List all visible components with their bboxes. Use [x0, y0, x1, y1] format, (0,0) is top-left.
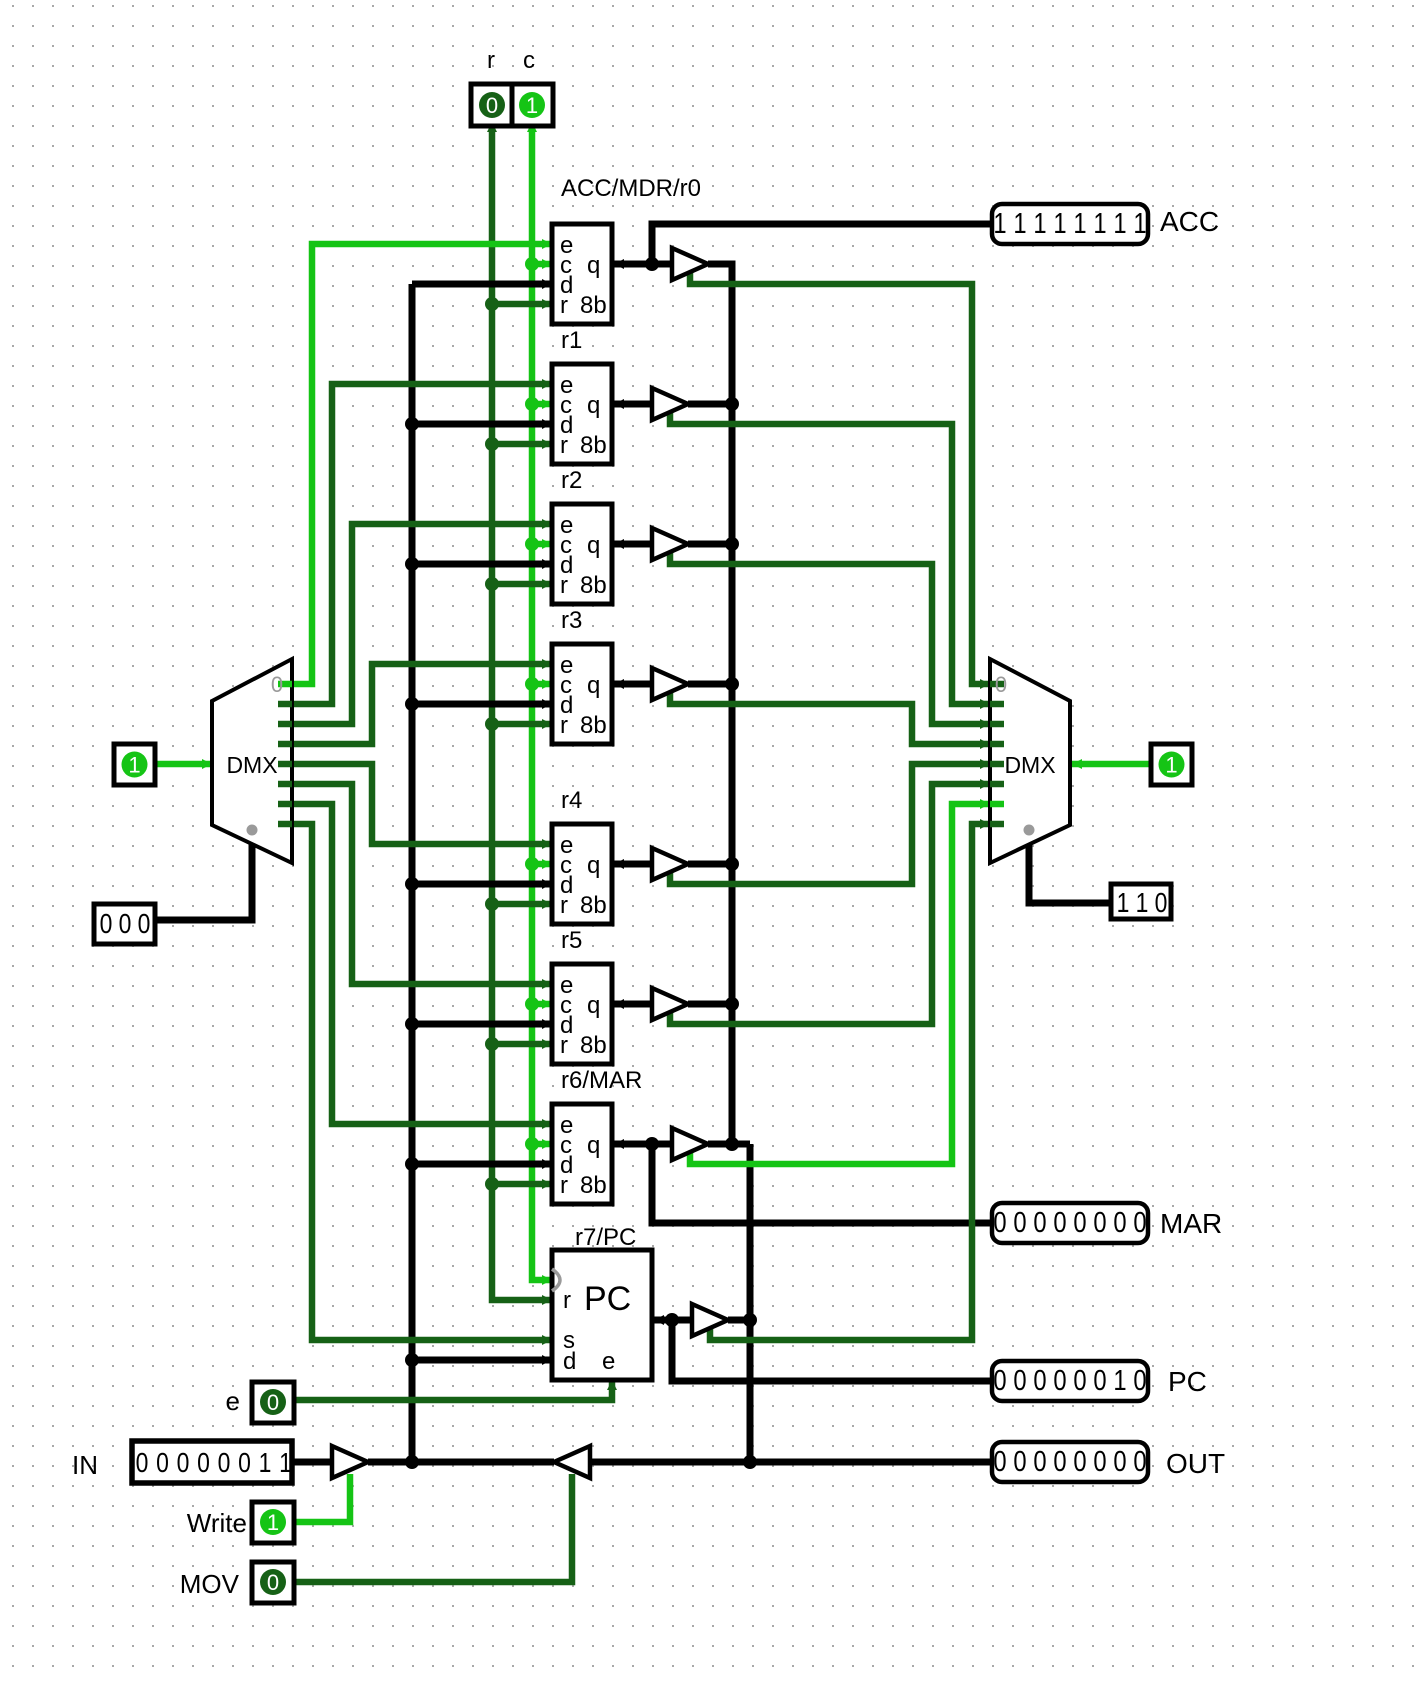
wire r1.r stub	[485, 437, 552, 451]
wire r0.c stub	[525, 257, 552, 271]
wire r2.d stub	[405, 557, 552, 571]
wire r1.q to driver	[612, 399, 652, 409]
register r5 (r5)	[552, 927, 612, 1064]
wire q-bus vertical upper	[708, 264, 732, 1144]
wire driver output junction y=404	[688, 397, 739, 411]
driver T7 (PC output buffer)	[692, 1304, 728, 1336]
wire c token stub	[527, 112, 537, 132]
driver T5	[652, 988, 688, 1020]
register r3 (r3)	[552, 607, 612, 744]
wire r6.r stub	[485, 1177, 552, 1191]
input pair r/c (token box)	[471, 47, 553, 126]
probe OUT display 00000000	[992, 1442, 1225, 1482]
driver T0 (r0 output buffer)	[672, 248, 708, 280]
driver T3	[652, 668, 688, 700]
wire DMX1 out5 to r5.e	[290, 784, 552, 989]
wire q-bus vertical lower	[747, 1144, 754, 1462]
driver T1	[652, 388, 688, 420]
wire DMX1 out3 to r3.e	[290, 659, 552, 744]
wire DMX1 selector to 000 input	[157, 832, 257, 920]
register r2 (r2)	[552, 467, 612, 604]
input IN display 00000011	[72, 1441, 292, 1483]
wire DMX1 out6 to r6.e	[290, 804, 552, 1129]
wire r6.q to driver T6 and MAR tap	[612, 1137, 990, 1223]
wire driver T7 output	[728, 1313, 757, 1327]
wire driver output junction y=1004	[688, 997, 739, 1011]
wire internal d-bus bottom row	[368, 1455, 554, 1469]
wire d-bus vertical	[409, 284, 416, 1462]
wire T3 enable to DMX2 out3	[670, 690, 990, 749]
wire r6.c stub	[525, 1137, 552, 1151]
wire r2.c stub	[525, 537, 552, 551]
input token 1 (DMX1 data in)	[114, 744, 155, 785]
input token Write (high)	[187, 1502, 294, 1543]
wire T2 enable to DMX2 out2	[670, 550, 990, 729]
wire r2.r stub	[485, 577, 552, 591]
input token 1 (DMX2 data in)	[1151, 744, 1192, 785]
wire DMX1 input from token 1 (high)	[155, 759, 212, 769]
wire DMX2 input from token 1 (high)	[1070, 759, 1149, 769]
probe ACC display 11111111	[992, 204, 1219, 244]
wire T7 enable to DMX2 out7	[710, 819, 990, 1340]
wire r4.r stub	[485, 897, 552, 911]
wire r5.d stub	[405, 1017, 552, 1031]
wire r4.q to driver	[612, 859, 652, 869]
driver T4	[652, 848, 688, 880]
wire q-bus jog at r6 driver	[708, 1137, 750, 1151]
probe MAR display 00000000	[992, 1203, 1222, 1243]
driver T8 (IN write buffer)	[332, 1446, 368, 1478]
wire q-bus to MOV driver and OUT display	[590, 1455, 990, 1469]
wire r3.c stub	[525, 677, 552, 691]
wire DMX2 selector to 110 input	[1024, 832, 1109, 903]
wire r5.c stub	[525, 997, 552, 1011]
input 000 (DMX1 select value)	[94, 904, 155, 944]
wire MOV token to MOV driver enable	[294, 1474, 572, 1582]
wire r3.q to driver	[612, 679, 652, 689]
wire net c (clock, high)	[532, 124, 550, 1280]
register r7/PC (program counter)	[552, 1224, 652, 1380]
wire r0.r stub	[485, 297, 552, 311]
driver T6 (MAR output buffer)	[672, 1128, 708, 1160]
wire r1.d stub	[405, 417, 552, 431]
wire r4.c stub	[525, 857, 552, 871]
register r1 (r1)	[552, 327, 612, 464]
wire DMX1 out2 to r2.e	[290, 519, 552, 724]
wire DMX1 out1 to r1.e	[290, 379, 552, 704]
wire PC.d stub	[405, 1353, 552, 1367]
wire T4 enable to DMX2 out4	[670, 759, 990, 884]
wire r4.d stub	[405, 877, 552, 891]
input 110 (DMX2 select value)	[1111, 884, 1171, 919]
register r0 (ACC/MDR/r0)	[552, 175, 701, 324]
wire net r (reset, low)	[492, 124, 550, 1300]
wire r2.q to driver	[612, 539, 652, 549]
input token e (PC count enable)	[226, 1382, 294, 1423]
driver T9 (MOV buffer, left-pointing)	[554, 1446, 590, 1478]
wire r1.c stub	[525, 397, 552, 411]
register r4 (r4)	[552, 787, 612, 924]
wire driver output junction y=864	[688, 857, 739, 871]
wire T5 enable to DMX2 out5	[670, 779, 990, 1024]
wire r6.d stub	[405, 1157, 552, 1171]
wire PC.q to driver T7 and PC display tap	[652, 1313, 990, 1381]
wire DMX1 out4 to r4.e	[290, 764, 552, 849]
wire driver output junction y=684	[688, 677, 739, 691]
wire T1 enable to DMX2 out1	[670, 410, 990, 709]
register r6 (r6/MAR)	[552, 1067, 642, 1204]
wire T0 enable to DMX2 out0	[690, 270, 990, 689]
wire PC clock arrow	[542, 1275, 552, 1285]
wire r token stub	[487, 112, 497, 132]
wire DMX1 out0 to r0.e (high)	[290, 239, 552, 684]
wire T6 enable to DMX2 out6 (high)	[690, 799, 990, 1164]
wire IN display to IN driver	[294, 1459, 332, 1466]
wire r0.d stub	[412, 279, 552, 289]
demux DMX1 (register write select)	[212, 659, 292, 863]
wire Write token to IN driver enable (high)	[294, 1474, 350, 1522]
wire r3.d stub	[405, 697, 552, 711]
probe PC display 00000010	[992, 1361, 1207, 1401]
wire e token to PC.e	[294, 1380, 617, 1400]
input token MOV (low)	[180, 1562, 294, 1603]
wire r5.r stub	[485, 1037, 552, 1051]
wire PC r arrow	[542, 1295, 552, 1305]
wire r0.q to driver T0 and ACC tap	[612, 224, 990, 271]
wire driver output junction y=544	[688, 537, 739, 551]
wire r5.q to driver	[612, 999, 652, 1009]
wire DMX1 out7 to PC.s	[290, 824, 552, 1345]
demux DMX2 (register read select)	[990, 659, 1070, 863]
wire r3.r stub	[485, 717, 552, 731]
driver T2	[652, 528, 688, 560]
